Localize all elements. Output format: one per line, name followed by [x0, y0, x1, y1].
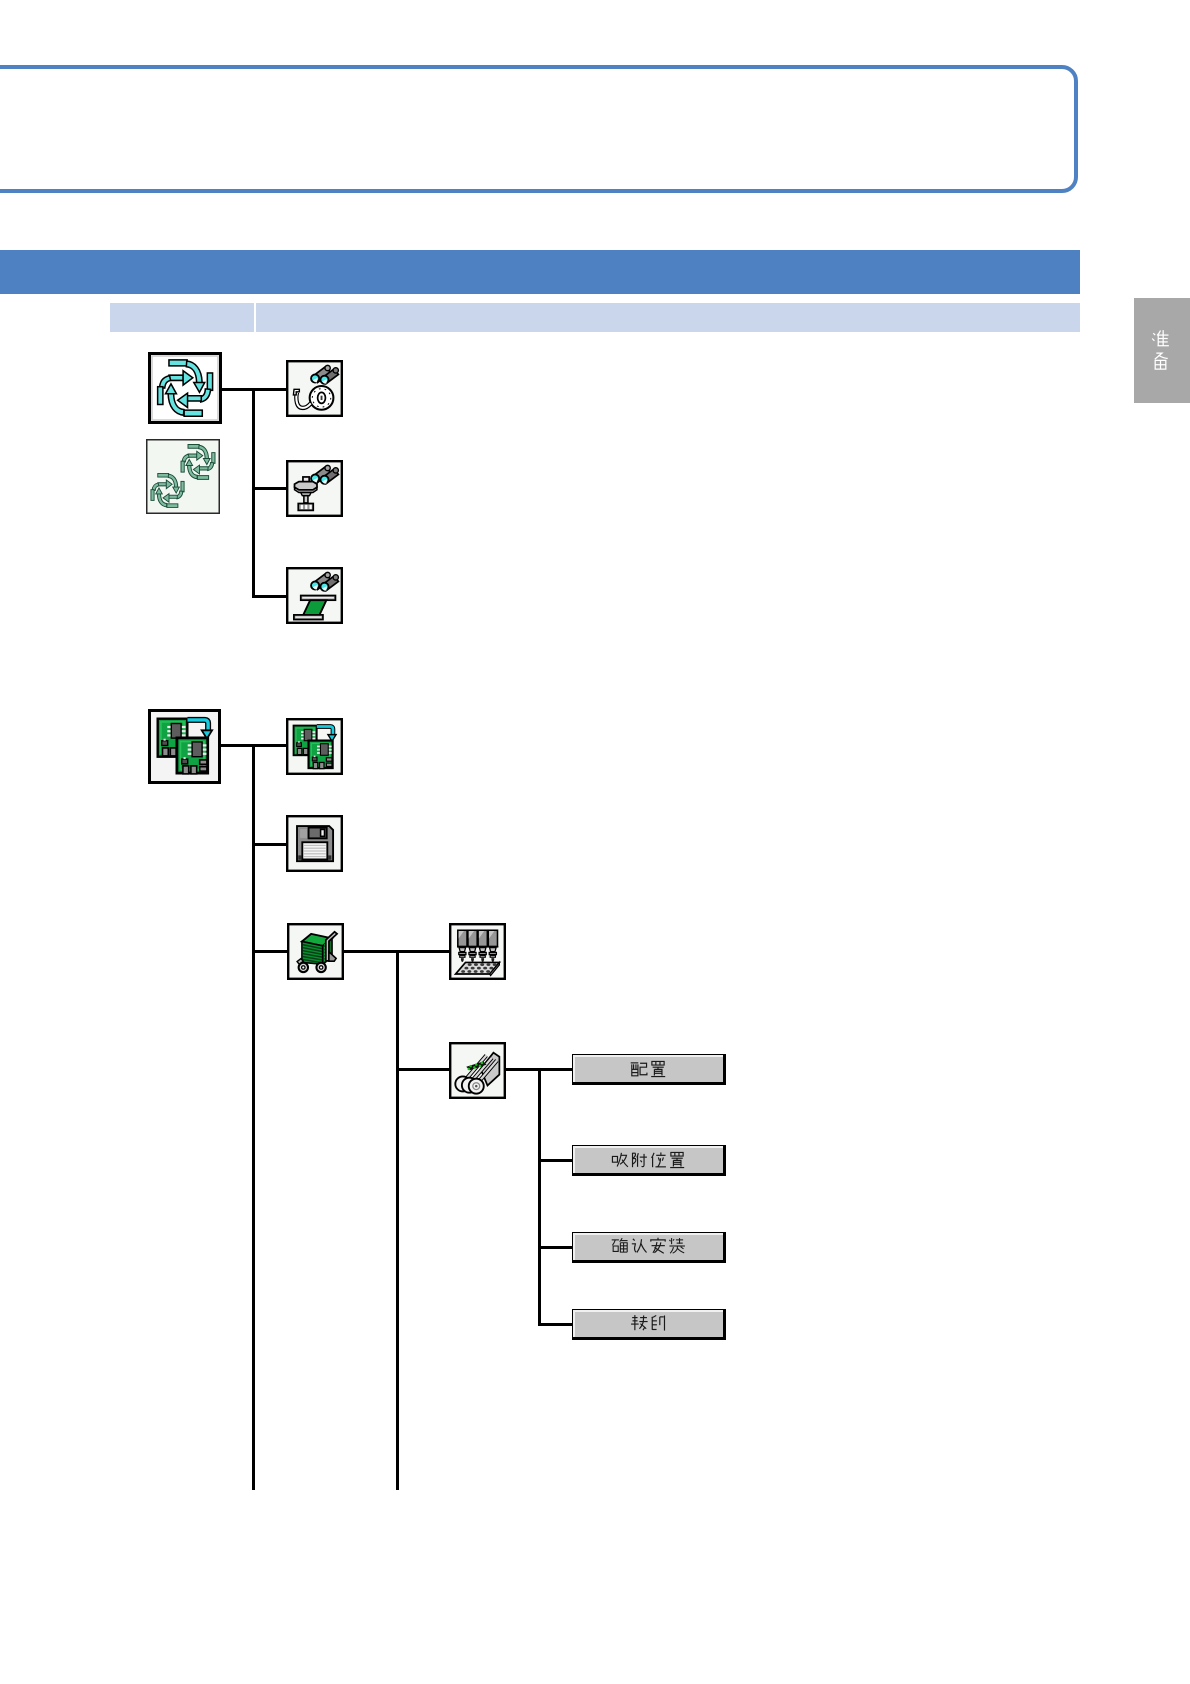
icon: binoculars + transfer ramp	[286, 567, 343, 624]
side tab text zhun	[1151, 329, 1170, 348]
button zhuanyin	[572, 1309, 726, 1340]
button querenanzhuang	[572, 1232, 726, 1263]
wire branch floppy	[252, 843, 286, 846]
icon: tape feeders	[449, 1042, 506, 1099]
icon: binoculars + tape reel	[286, 360, 343, 417]
wire branch btn4	[538, 1323, 572, 1326]
side tab text bei	[1151, 352, 1170, 371]
wire branch btn3	[538, 1246, 572, 1249]
wire trolley to nozzle	[344, 950, 449, 953]
icon: PCB copy (small)	[286, 718, 343, 775]
table header cell right	[256, 303, 1080, 332]
icon: binoculars + nozzle stand	[286, 460, 343, 517]
wire trunk B2	[396, 950, 399, 1490]
icon: production cycle (large)	[148, 352, 222, 424]
wire iconB to childB1	[221, 744, 286, 747]
wire branch btn2	[538, 1159, 572, 1162]
wire branch child3	[252, 595, 286, 598]
icon: faded double cycle	[146, 439, 220, 514]
button xifuweizhi	[572, 1145, 726, 1176]
wire branch feeder	[397, 1068, 449, 1071]
wire trunk A	[252, 388, 255, 598]
icon: nozzle heads	[449, 923, 506, 980]
wire iconA to child1	[222, 388, 286, 391]
wire branch trolley	[252, 950, 287, 953]
table header cell left	[110, 303, 254, 332]
wire feeder to btn1	[506, 1068, 573, 1071]
icon: floppy disk	[286, 815, 343, 872]
icon: board stack trolley	[287, 923, 344, 980]
callout rounded box	[0, 65, 1078, 193]
icon: PCB copy (large)	[148, 709, 221, 784]
blue title band	[0, 250, 1080, 294]
wire trunk C	[538, 1068, 541, 1326]
side tab	[1134, 298, 1190, 403]
wire trunk B1	[252, 744, 255, 1490]
wire branch child2	[252, 487, 286, 490]
button peizhi	[572, 1054, 726, 1085]
